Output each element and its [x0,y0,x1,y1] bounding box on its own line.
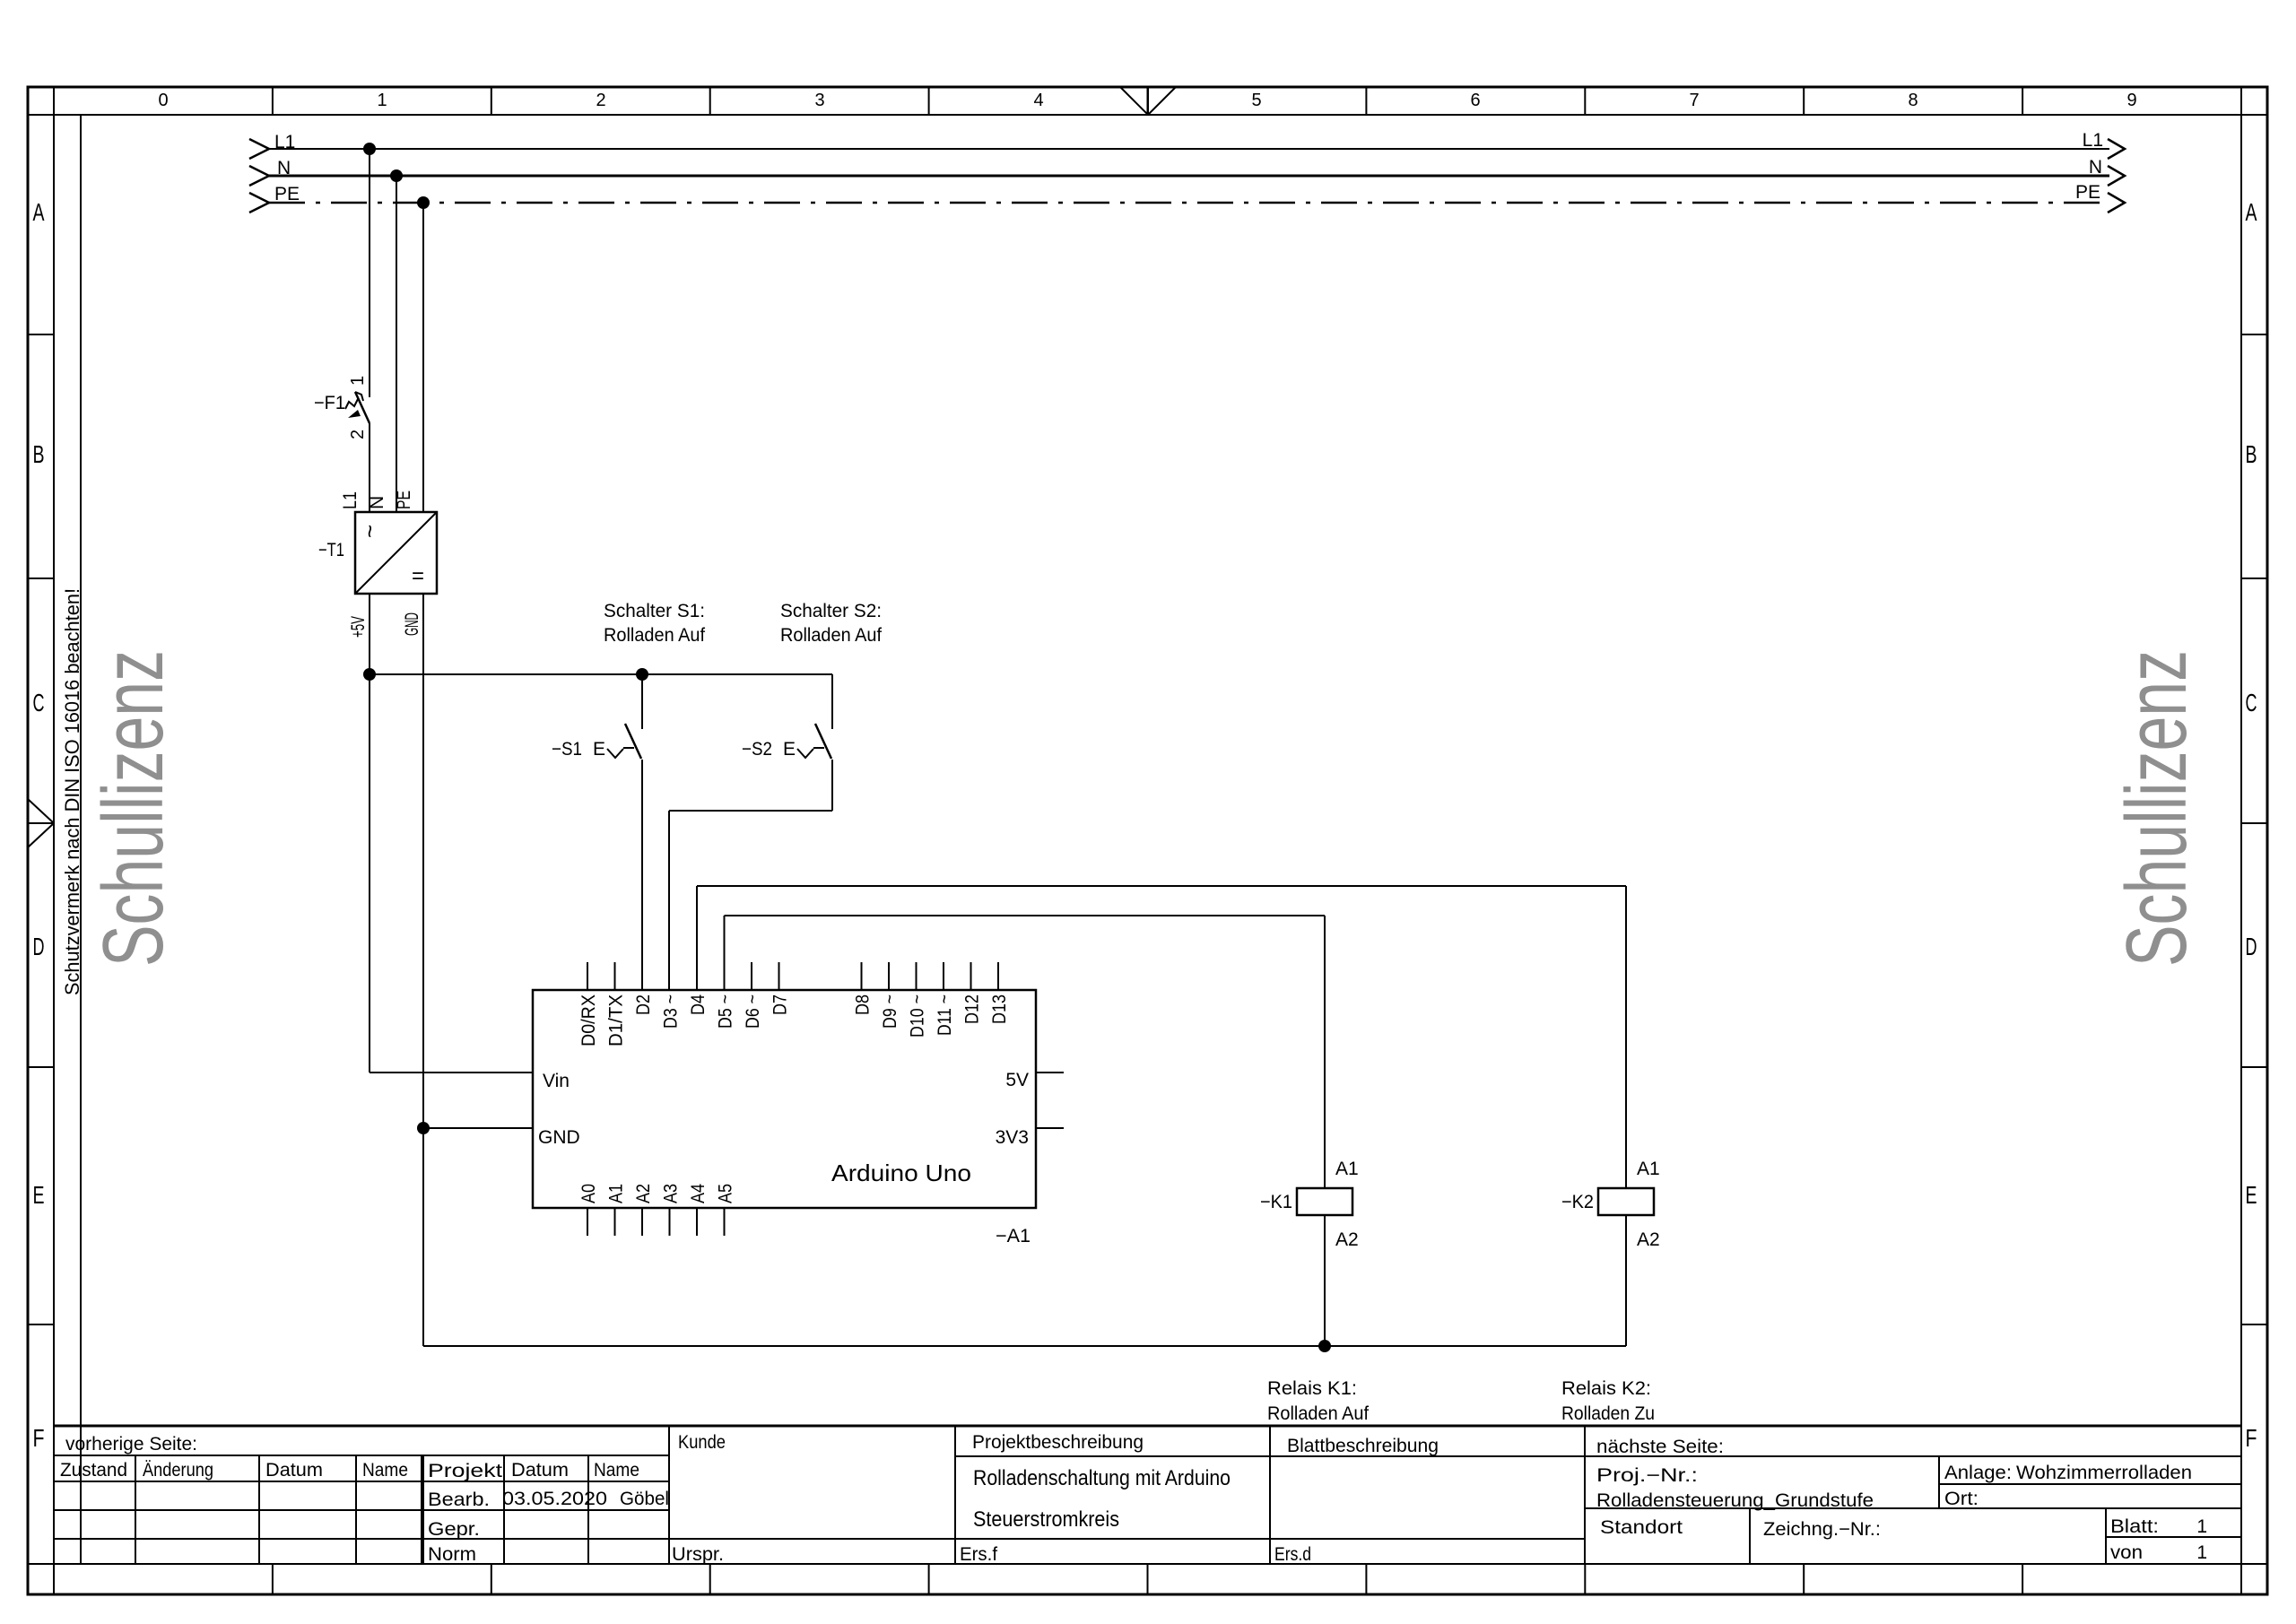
svg-text:0: 0 [158,91,168,110]
svg-text:F: F [2246,1424,2257,1452]
svg-text:D: D [33,933,45,960]
svg-text:Rolladensteuerung_Grundstufe: Rolladensteuerung_Grundstufe [1596,1490,1874,1511]
svg-text:Name: Name [362,1460,408,1481]
svg-text:Datum: Datum [511,1460,569,1481]
svg-text:Wohzimmerrolladen: Wohzimmerrolladen [2016,1463,2192,1483]
svg-text:A1: A1 [1637,1159,1660,1179]
svg-text:B: B [33,440,45,468]
svg-text:Datum: Datum [265,1460,323,1481]
svg-text:1: 1 [2196,1542,2207,1563]
svg-text:2: 2 [596,91,605,110]
svg-text:Relais K2:: Relais K2: [1561,1378,1651,1399]
svg-text:=: = [412,564,424,588]
svg-text:−F1: −F1 [314,393,345,413]
svg-text:C: C [33,689,45,716]
svg-text:E: E [593,739,605,760]
svg-text:A4: A4 [688,1184,709,1203]
svg-text:6: 6 [1470,91,1480,110]
svg-text:Anlage:: Anlage: [1944,1463,2012,1483]
svg-text:E: E [2246,1181,2257,1209]
svg-text:8: 8 [1908,91,1918,110]
svg-text:−S2: −S2 [742,739,772,760]
svg-text:Gepr.: Gepr. [428,1519,480,1540]
svg-text:−A1: −A1 [996,1226,1031,1246]
svg-text:Ers.f: Ers.f [960,1544,997,1565]
svg-text:Ort:: Ort: [1944,1489,1979,1509]
svg-text:Zustand: Zustand [60,1460,127,1481]
svg-text:Schalter S1:: Schalter S1: [604,601,705,621]
svg-text:Kunde: Kunde [678,1432,726,1453]
svg-text:vorherige Seite:: vorherige Seite: [65,1434,197,1455]
svg-text:D8: D8 [853,994,874,1015]
svg-text:1: 1 [377,91,387,110]
svg-text:Name: Name [594,1460,639,1481]
svg-text:D1/TX: D1/TX [606,994,627,1046]
svg-text:D13: D13 [989,994,1010,1024]
svg-text:L1: L1 [2083,130,2103,151]
svg-text:Standort: Standort [1600,1517,1683,1538]
svg-text:−K2: −K2 [1561,1192,1594,1212]
svg-text:D3 ~: D3 ~ [661,994,682,1029]
svg-text:A5: A5 [716,1184,736,1203]
svg-text:D11 ~: D11 ~ [935,994,955,1036]
svg-text:D: D [2246,933,2257,960]
svg-text:7: 7 [1689,91,1699,110]
svg-text:Rolladen Auf: Rolladen Auf [1267,1403,1369,1424]
svg-text:Relais K1:: Relais K1: [1267,1378,1357,1399]
svg-text:5V: 5V [1005,1070,1029,1090]
svg-text:Rolladen Auf: Rolladen Auf [780,625,882,646]
svg-text:1: 1 [348,376,368,386]
svg-text:9: 9 [2126,91,2136,110]
svg-text:D9 ~: D9 ~ [880,994,900,1029]
svg-text:D10 ~: D10 ~ [908,994,928,1038]
svg-text:A2: A2 [1637,1229,1660,1250]
svg-text:B: B [2246,440,2257,468]
svg-text:E: E [783,739,796,760]
svg-text:Projektbeschreibung: Projektbeschreibung [972,1432,1144,1453]
svg-text:−K1: −K1 [1260,1192,1292,1212]
svg-text:D0/RX: D0/RX [578,994,599,1046]
svg-text:von: von [2110,1542,2143,1563]
svg-text:A2: A2 [1335,1229,1359,1250]
svg-text:L1: L1 [340,491,361,509]
svg-text:PE: PE [274,184,300,204]
svg-text:Norm: Norm [428,1544,476,1565]
svg-text:D12: D12 [962,994,983,1024]
svg-text:4: 4 [1033,91,1043,110]
svg-text:−S1: −S1 [552,739,582,760]
svg-text:Projekt: Projekt [428,1461,502,1481]
svg-text:Rolladenschaltung mit Arduino: Rolladenschaltung mit Arduino [973,1466,1231,1490]
svg-text:Arduino Uno: Arduino Uno [831,1159,971,1186]
svg-text:N: N [367,496,387,509]
svg-text:5: 5 [1251,91,1261,110]
svg-text:03.05.2020: 03.05.2020 [502,1489,607,1509]
svg-text:A3: A3 [661,1184,682,1203]
svg-text:Ers.d: Ers.d [1274,1544,1311,1565]
svg-text:D5 ~: D5 ~ [716,994,736,1029]
svg-text:A1: A1 [1335,1159,1359,1179]
svg-text:PE: PE [394,491,414,509]
svg-text:D4: D4 [688,994,709,1015]
svg-text:L1: L1 [274,132,295,152]
svg-text:Schalter S2:: Schalter S2: [780,601,882,621]
svg-text:D2: D2 [633,994,654,1015]
svg-text:Zeichng.−Nr.:: Zeichng.−Nr.: [1763,1519,1881,1540]
svg-text:A: A [2246,198,2257,226]
svg-text:Blattbeschreibung: Blattbeschreibung [1287,1436,1439,1456]
svg-text:N: N [277,158,291,178]
svg-text:A: A [33,198,45,226]
svg-text:GND: GND [402,612,422,636]
svg-text:Schullizenz: Schullizenz [85,650,181,967]
svg-text:3V3: 3V3 [996,1127,1029,1148]
svg-text:Änderung: Änderung [143,1460,213,1481]
svg-text:+5V: +5V [348,616,369,638]
svg-text:GND: GND [538,1127,580,1148]
svg-text:A1: A1 [606,1184,627,1203]
svg-text:Steuerstromkreis: Steuerstromkreis [973,1507,1119,1532]
svg-text:D6 ~: D6 ~ [743,994,763,1029]
svg-text:D7: D7 [770,994,791,1015]
svg-text:Vin: Vin [543,1071,570,1091]
svg-text:Schullizenz: Schullizenz [2109,650,2205,967]
svg-text:N: N [2089,157,2102,178]
svg-text:Schutzvermerk nach DIN ISO 160: Schutzvermerk nach DIN ISO 16016 beachte… [61,588,83,995]
svg-text:C: C [2246,689,2257,716]
svg-text:−T1: −T1 [318,540,344,560]
svg-text:1: 1 [2196,1516,2207,1537]
svg-text:Urspr.: Urspr. [672,1544,724,1565]
svg-text:A2: A2 [633,1184,654,1203]
svg-text:2: 2 [348,430,368,439]
svg-text:~: ~ [356,525,383,538]
svg-text:E: E [33,1181,45,1209]
svg-text:Rolladen Zu: Rolladen Zu [1561,1403,1655,1424]
svg-text:Göbel: Göbel [620,1489,669,1509]
svg-text:Rolladen Auf: Rolladen Auf [604,625,705,646]
svg-text:3: 3 [814,91,824,110]
svg-text:Proj.−Nr.:: Proj.−Nr.: [1596,1465,1698,1486]
svg-text:A0: A0 [578,1184,599,1203]
svg-text:F: F [33,1424,45,1452]
svg-text:Bearb.: Bearb. [428,1489,490,1510]
svg-text:nächste Seite:: nächste Seite: [1596,1437,1724,1457]
svg-text:PE: PE [2075,182,2100,203]
svg-text:Blatt:: Blatt: [2110,1516,2159,1537]
